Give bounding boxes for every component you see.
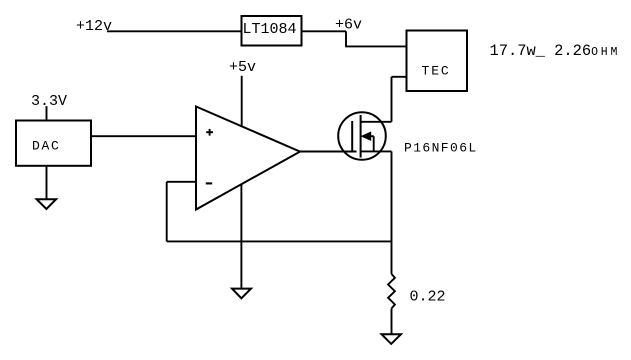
wire feedback left vertical [166, 182, 168, 242]
wire drain vertical to TEC [391, 77, 393, 122]
wire +6v corner down [345, 31, 347, 46]
wire source vertical to resistor [391, 151, 393, 274]
svg-text:LT1084: LT1084 [243, 21, 297, 38]
wire drain horizontal [361, 121, 392, 123]
svg-text:0.22: 0.22 [410, 289, 446, 306]
svg-text:P16NF06L: P16NF06L [404, 141, 478, 156]
op-amp U2 triangle [196, 107, 300, 210]
regulator U1 LT1084 box [242, 16, 302, 46]
wire +5v supply to op-amp [241, 76, 243, 127]
ground symbol below op-amp [232, 289, 251, 299]
svg-text:TEC: TEC [422, 64, 451, 79]
wire drain to TEC left pin [392, 76, 407, 78]
wire DAC output to op-amp noninverting input [91, 135, 196, 137]
svg-text:+6v: +6v [335, 17, 362, 34]
transistor Q1 channel bar [360, 115, 362, 158]
transistor Q1 gate bar [351, 121, 353, 152]
svg-text:3.3V: 3.3V [31, 93, 67, 110]
transistor Q1 body arrow [362, 132, 371, 140]
wire op-amp output to MOSFET gate [300, 151, 357, 153]
wire +12v to LT1084 [107, 30, 242, 32]
wire LT1084 output [302, 30, 347, 32]
transistor Q1 arrow stub [369, 135, 374, 137]
op-amp minus input marking [206, 182, 212, 184]
transistor Q1 body circle [338, 112, 386, 160]
ground symbol below resistor [382, 334, 402, 344]
wire +6v to TEC [345, 45, 406, 47]
wire inverting input stub [167, 181, 196, 183]
op-amp plus input marking [206, 131, 213, 133]
wire feedback bottom rail [167, 240, 392, 242]
svg-text:DAC: DAC [32, 138, 61, 153]
wire source horizontal [361, 150, 392, 152]
svg-text:+5v: +5v [229, 59, 256, 76]
wire DAC to ground [46, 166, 48, 199]
ground symbol below DAC [37, 199, 57, 209]
DAC box [16, 121, 91, 166]
wire op-amp negative supply to ground [240, 184, 242, 288]
resistor R1 zigzag [388, 274, 395, 309]
wire 3.3V to DAC [46, 106, 48, 120]
TEC box [407, 31, 468, 92]
wire resistor to ground [391, 309, 393, 335]
svg-text:+12v: +12v [76, 18, 112, 35]
